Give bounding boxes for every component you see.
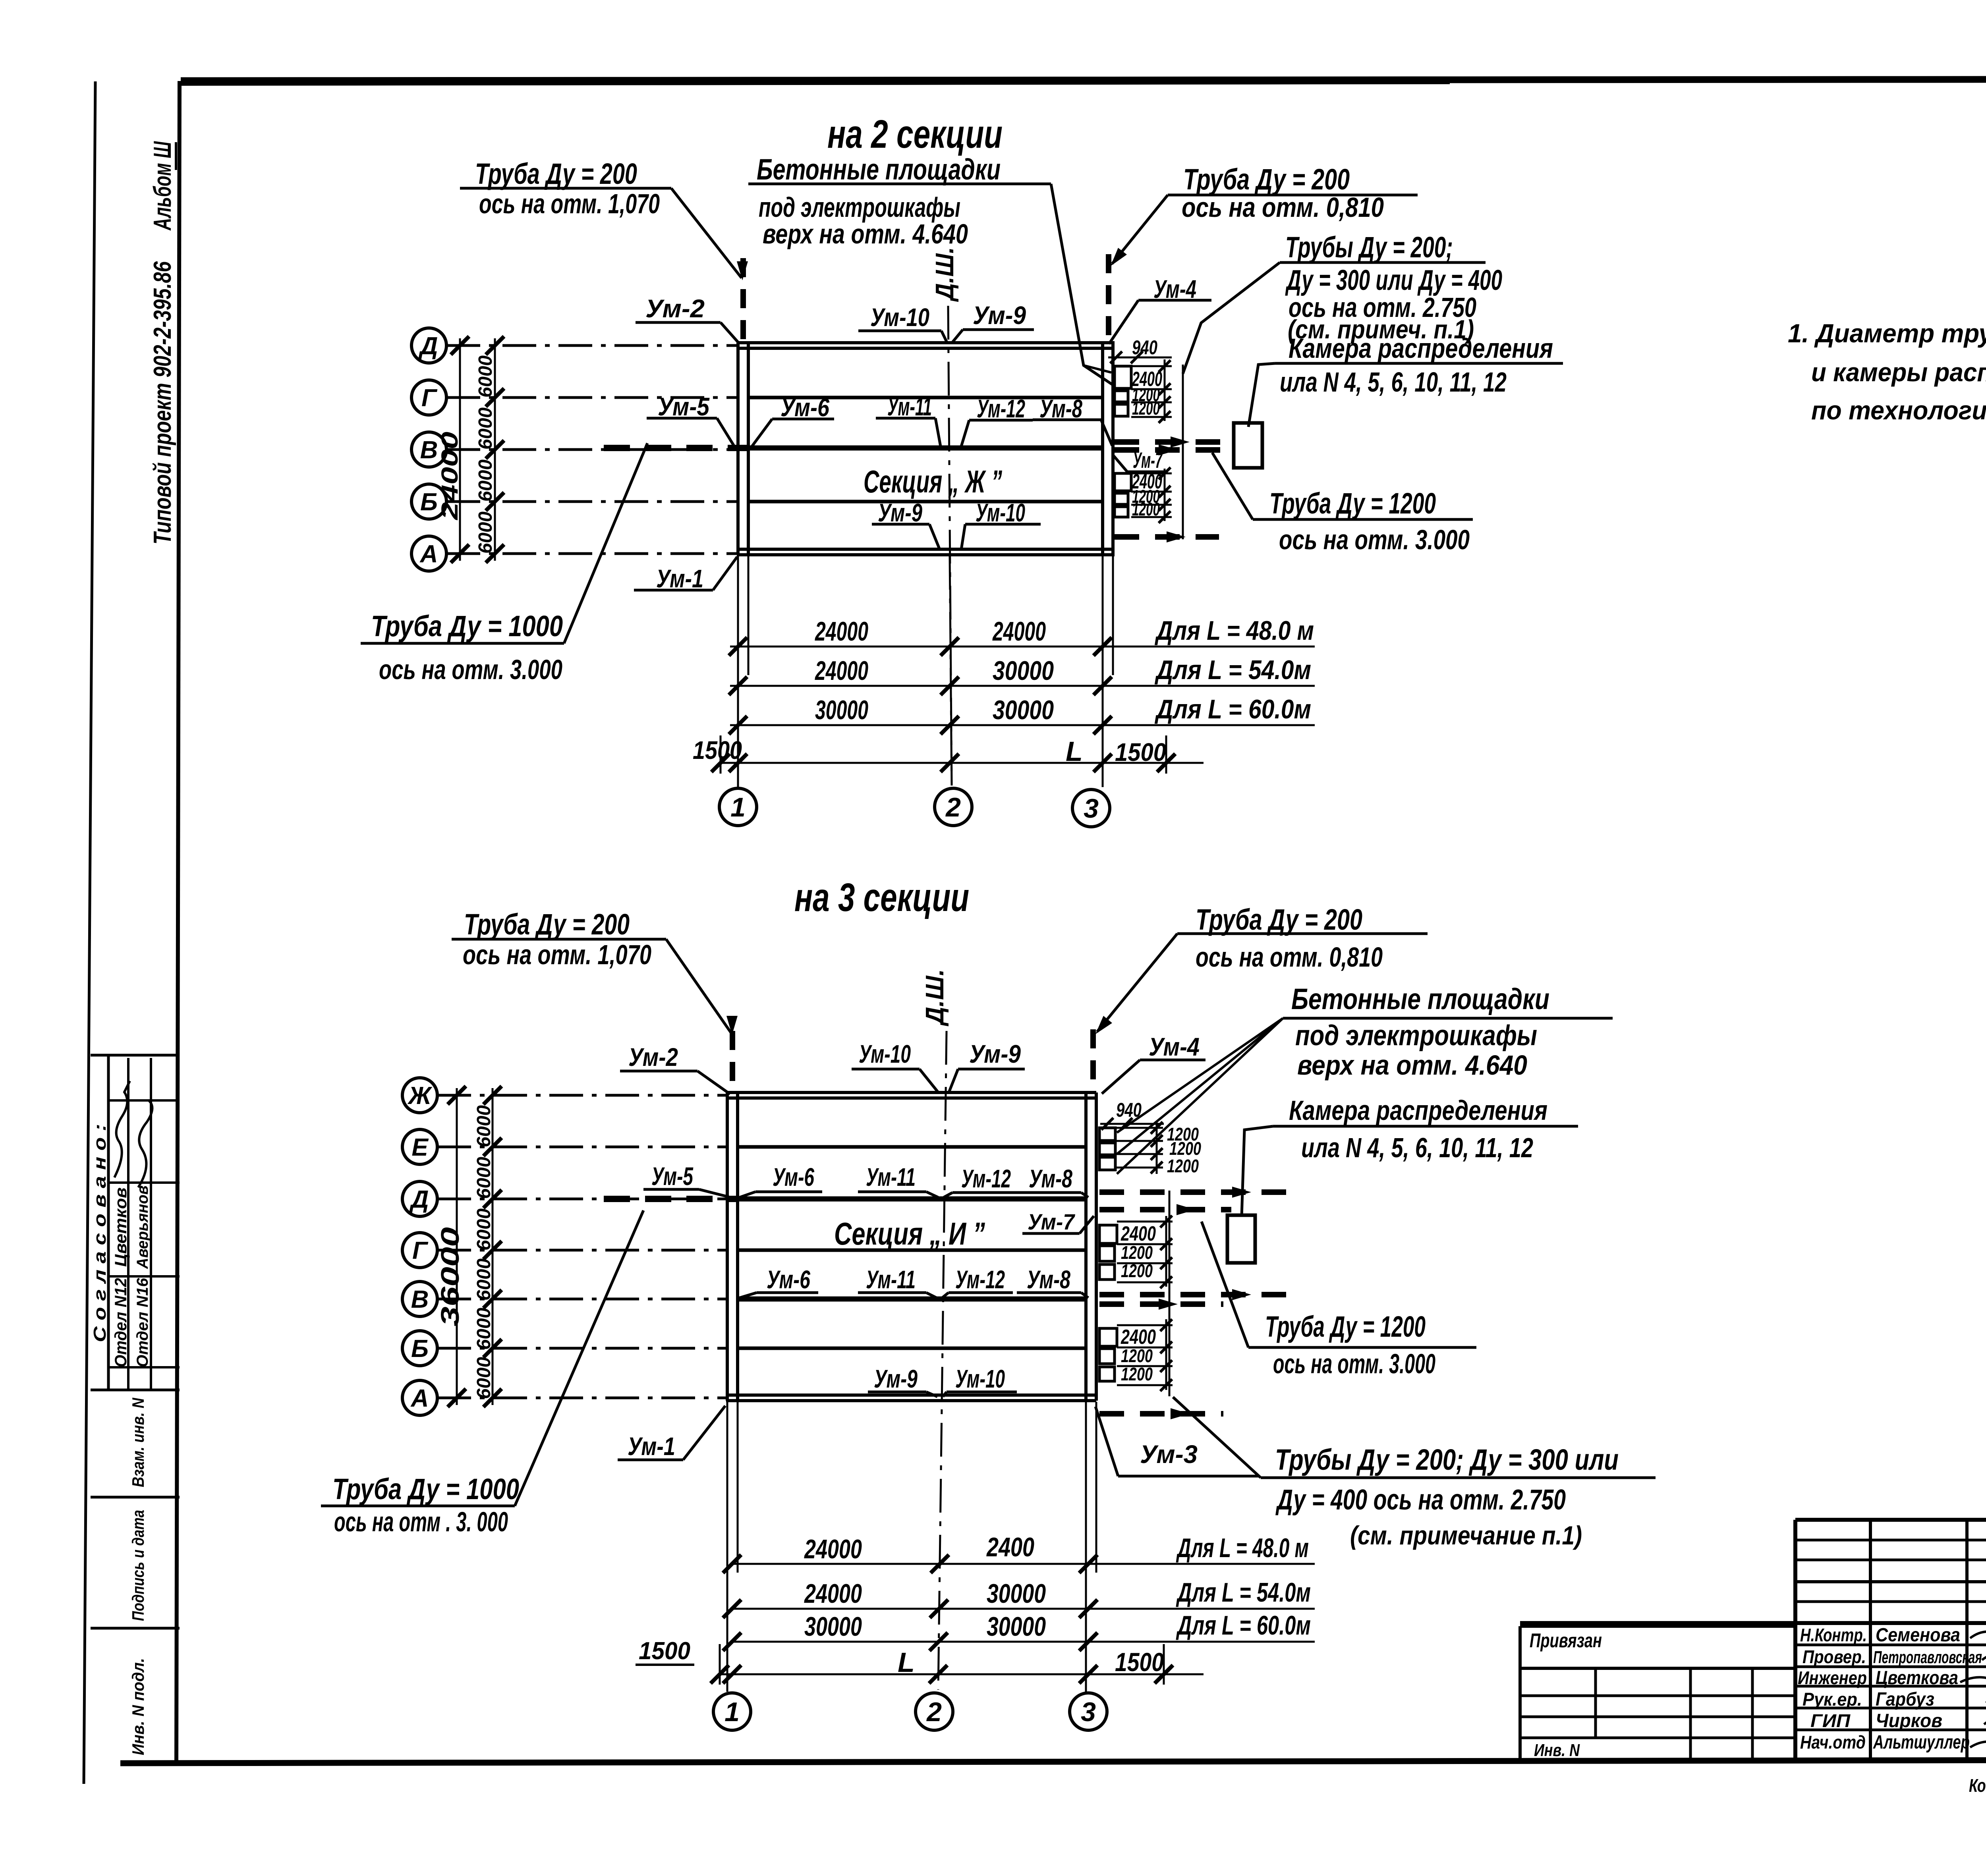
leader	[949, 1069, 958, 1093]
svg-text:Для L = 54.0м: Для L = 54.0м	[1155, 655, 1311, 685]
leader	[920, 1069, 939, 1093]
leader	[942, 1293, 949, 1298]
pipe Ду=1000 heavy dashes on row Д (left of tank)	[604, 1196, 738, 1202]
svg-text:Труба Ду = 200: Труба Ду = 200	[475, 157, 637, 190]
svg-text:Для L = 54.0м: Для L = 54.0м	[1176, 1577, 1311, 1608]
svg-text:Ум-10: Ум-10	[955, 1365, 1005, 1393]
column bubble 3 (bottom plan)	[1070, 1693, 1107, 1730]
svg-text:Ум-9: Ум-9	[874, 1365, 918, 1393]
leader	[926, 1293, 937, 1298]
svg-text:24000: 24000	[815, 616, 869, 647]
grid bubble А (bottom plan)	[402, 1380, 437, 1415]
svg-text:30000: 30000	[993, 656, 1054, 686]
svg-text:Ум-6: Ум-6	[767, 1265, 810, 1294]
grid axis line	[437, 1298, 726, 1301]
svg-text:Ум-1: Ум-1	[628, 1432, 675, 1461]
svg-text:на 2 секции: на 2 секции	[827, 112, 1003, 156]
svg-text:1. Диаметр труб подачи и: 1. Диаметр труб подачи ила Ду=200; 300 и…	[1788, 318, 1986, 348]
corridor divider row Е	[738, 1145, 1086, 1149]
svg-text:Ум-12: Ум-12	[955, 1265, 1005, 1294]
leader	[1081, 1293, 1088, 1298]
corridor divider row Б	[738, 1347, 1086, 1350]
svg-text:Цветков: Цветков	[111, 1187, 130, 1267]
svg-text:3: 3	[1084, 793, 1099, 824]
frame left border	[176, 81, 180, 1761]
dim line L=60 (bottom plan)	[730, 1641, 1315, 1643]
svg-text:Е: Е	[411, 1134, 429, 1161]
svg-text:В: В	[411, 1286, 429, 1313]
svg-text:Для L = 48.0 м: Для L = 48.0 м	[1176, 1533, 1309, 1563]
grid bubble В (bottom plan)	[402, 1282, 437, 1316]
leader	[1102, 1060, 1140, 1094]
svg-text:Д: Д	[409, 1186, 429, 1213]
leader	[944, 1193, 952, 1197]
svg-text:по технологическому зада: по технологическому заданию	[1811, 396, 1986, 425]
svg-text:ось на отм. 0,810: ось на отм. 0,810	[1182, 192, 1384, 223]
leader	[935, 418, 941, 446]
tank wall column 3 (top plan)	[1101, 343, 1104, 555]
svg-text:Отдел N12: Отдел N12	[111, 1278, 130, 1367]
svg-text:Камера распределения: Камера распределения	[1289, 1095, 1547, 1126]
extension verticals below tank (bottom plan)	[726, 1402, 728, 1692]
svg-text:ось на отм. 3.000: ось на отм. 3.000	[1279, 524, 1470, 555]
svg-text:6000: 6000	[473, 1308, 495, 1350]
pad dim ladder top group	[1131, 365, 1172, 367]
dim line L=54 (top plan)	[730, 685, 1315, 687]
dimension chain verticals (left, bottom plan)	[456, 1088, 458, 1405]
sidebar cell Подпись и дата	[91, 1627, 180, 1630]
svg-text:1200: 1200	[1132, 398, 1160, 419]
svg-text:Труба Ду = 200: Труба Ду = 200	[1183, 163, 1350, 196]
svg-text:Рук.ер.: Рук.ер.	[1802, 1689, 1862, 1710]
svg-text:1500: 1500	[1115, 1647, 1164, 1677]
leader	[740, 1293, 757, 1298]
leader	[1081, 1193, 1088, 1197]
leader to concrete pads	[1051, 184, 1112, 384]
svg-text:Для L = 60.0м: Для L = 60.0м	[1155, 694, 1311, 724]
svg-text:Для L = 48.0 м: Для L = 48.0 м	[1155, 616, 1314, 646]
leader	[515, 1210, 643, 1506]
svg-text:Секция „ И ”: Секция „ И ”	[834, 1216, 985, 1251]
tank outer wall row А (top plan)	[737, 548, 1115, 551]
svg-text:Ум-11: Ум-11	[866, 1265, 916, 1294]
svg-text:Бетонные площадки: Бетонные площадки	[1291, 982, 1549, 1015]
leader	[1183, 262, 1280, 374]
svg-text:24000: 24000	[804, 1579, 862, 1609]
column bubble 1 (bottom plan)	[713, 1693, 751, 1730]
svg-text:2400: 2400	[986, 1532, 1034, 1562]
grid axis line	[437, 1347, 726, 1350]
grid bubble А (top plan)	[411, 536, 446, 571]
grid axis line	[437, 1094, 726, 1097]
svg-text:ила N 4, 5, 6, 10, 11, 12: ила N 4, 5, 6, 10, 11, 12	[1301, 1132, 1533, 1163]
leader to chamber	[1248, 363, 1275, 427]
leader	[1097, 934, 1177, 1032]
svg-text:Ум-8: Ум-8	[1029, 1164, 1072, 1193]
svg-text:Ум-8: Ум-8	[1027, 1265, 1070, 1294]
svg-text:Ум-5: Ум-5	[651, 1162, 694, 1191]
leader to column-3 riser	[1112, 195, 1168, 264]
tank wall column 1 (top plan)	[736, 343, 740, 555]
svg-text:Взам. инв. N: Взам. инв. N	[129, 1397, 147, 1487]
grid axis line	[446, 448, 737, 451]
svg-text:1200: 1200	[1167, 1156, 1199, 1176]
pipe Ду=1200 dashed pair at row В (top plan)	[1115, 439, 1225, 445]
leader	[713, 557, 737, 590]
svg-text:Ду = 300 или Ду = 400: Ду = 300 или Ду = 400	[1285, 264, 1502, 296]
svg-text:Ум-7: Ум-7	[1133, 448, 1163, 473]
svg-text:ГИП: ГИП	[1810, 1710, 1851, 1731]
tank outer wall row Д (top plan)	[737, 341, 1115, 344]
svg-text:Ум-12: Ум-12	[977, 394, 1025, 423]
svg-text:Труба Ду = 1200: Труба Ду = 1200	[1265, 1310, 1426, 1343]
riser pipe Ду=200 at column 1 (top plan)	[740, 258, 746, 342]
leader	[1109, 300, 1138, 344]
riser pipe Ду=200 at column 3 (top plan)	[1106, 254, 1111, 342]
svg-text:940: 940	[1132, 336, 1157, 359]
svg-text:1200: 1200	[1132, 499, 1160, 519]
svg-text:24000: 24000	[804, 1534, 862, 1564]
svg-text:Копир. Лаврухина: Копир. Лаврухина	[1969, 1775, 1986, 1796]
svg-text:Ум-6: Ум-6	[780, 393, 829, 422]
dim line L (bottom plan)	[720, 1673, 1204, 1675]
svg-text:6000: 6000	[473, 1357, 495, 1399]
pipe dashed at row А (bottom plan)	[1099, 1411, 1223, 1417]
leader	[666, 939, 731, 1033]
leader	[1173, 1397, 1261, 1478]
svg-text:Отдел N16: Отдел N16	[134, 1278, 151, 1367]
svg-text:Ум-6: Ум-6	[773, 1163, 814, 1191]
pipe Ду=1000 heavy dashes on row В (left of tank)	[604, 445, 748, 451]
svg-text:Б: Б	[411, 1335, 429, 1363]
svg-text:Инв. N: Инв. N	[1534, 1741, 1580, 1760]
grid axis line	[446, 500, 737, 503]
svg-text:6000: 6000	[475, 459, 496, 502]
svg-text:1: 1	[730, 792, 746, 822]
leader	[961, 420, 969, 446]
svg-text:Ум-4: Ум-4	[1149, 1033, 1200, 1061]
pad ladder below В	[1117, 1324, 1173, 1326]
svg-text:Г: Г	[412, 1237, 429, 1264]
svg-text:Ум-3: Ум-3	[1140, 1440, 1198, 1469]
pipe dashed pair at row В (bottom plan)	[1099, 1292, 1287, 1297]
svg-text:Н.Контр.: Н.Контр.	[1800, 1625, 1867, 1645]
svg-text:2: 2	[926, 1697, 942, 1727]
grid axis line	[437, 1397, 726, 1399]
dim line L=48 (top plan)	[730, 646, 1315, 648]
svg-text:Ум-7: Ум-7	[1028, 1209, 1076, 1234]
svg-text:30000: 30000	[987, 1579, 1046, 1609]
svg-text:и камеры распределения и: и камеры распределения ила N 1÷12 опреде…	[1811, 357, 1986, 387]
svg-text:1500: 1500	[639, 1637, 690, 1665]
svg-text:Цветкова: Цветкова	[1876, 1668, 1958, 1689]
frame bottom border	[120, 1759, 1986, 1763]
svg-text:Г: Г	[421, 384, 438, 412]
leader	[1212, 453, 1253, 519]
svg-text:Бетонные площадки: Бетонные площадки	[757, 153, 1001, 186]
leader	[697, 1071, 730, 1094]
svg-text:Чирков: Чирков	[1876, 1710, 1942, 1731]
sheet outer left edge line	[84, 81, 95, 1784]
riser pipe Ду=200 at column 3 (bottom plan)	[1090, 1029, 1096, 1092]
grid bubble Г (bottom plan)	[402, 1233, 437, 1268]
svg-text:Трубы Ду = 200; Ду = 300 или: Трубы Ду = 200; Ду = 300 или	[1275, 1443, 1619, 1476]
column bubble 2 (top plan)	[935, 788, 972, 826]
leader	[717, 418, 735, 447]
extension verticals below tank (top plan)	[737, 556, 739, 787]
svg-text:1200: 1200	[1121, 1345, 1153, 1366]
svg-text:3: 3	[1081, 1697, 1096, 1727]
corridor divider row Г	[738, 1249, 1086, 1252]
svg-text:ось на отм . 3. 000: ось на отм . 3. 000	[334, 1506, 508, 1537]
svg-text:Петропавловская: Петропавловская	[1873, 1648, 1982, 1667]
grid bubble Б (top plan)	[411, 484, 446, 519]
svg-text:ила N 4, 5, 6, 10, 11, 12: ила N 4, 5, 6, 10, 11, 12	[1280, 367, 1507, 398]
svg-text:Альбом Ш: Альбом Ш	[149, 141, 176, 231]
extension vertical through pipes (top plan)	[1182, 365, 1184, 539]
column bubble 2 (bottom plan)	[916, 1693, 953, 1730]
svg-text:1200: 1200	[1121, 1260, 1153, 1281]
sidebar cell Взам.инв.N	[91, 1496, 180, 1499]
svg-text:Труба Ду = 1200: Труба Ду = 1200	[1269, 487, 1436, 520]
leader to column-1 riser	[671, 188, 742, 278]
svg-text:Семенова: Семенова	[1876, 1625, 1960, 1646]
svg-text:30000: 30000	[987, 1612, 1046, 1642]
svg-text:Ум-11: Ум-11	[887, 392, 932, 421]
svg-text:Ум-12: Ум-12	[961, 1164, 1011, 1193]
svg-text:А: А	[419, 540, 438, 568]
svg-text:Ум-11: Ум-11	[866, 1163, 916, 1191]
svg-text:Секция „ Ж ”: Секция „ Ж ”	[864, 464, 1002, 499]
tank wall column 3 (bottom plan)	[1084, 1092, 1088, 1401]
title block outer	[1795, 1518, 1986, 1522]
svg-text:Для L = 60.0м: Для L = 60.0м	[1176, 1610, 1311, 1641]
svg-text:Д: Д	[418, 332, 438, 360]
signature squiggles	[1970, 1629, 1986, 1640]
concrete pads below Д (bottom plan)	[1099, 1225, 1117, 1243]
svg-text:30000: 30000	[993, 695, 1054, 725]
svg-text:L: L	[898, 1647, 915, 1678]
leader	[926, 1192, 938, 1197]
pad ladder rows Ж-Е	[1115, 1127, 1163, 1129]
svg-text:L: L	[1066, 736, 1083, 767]
svg-text:Ду = 400 ось на отм. 2.750: Ду = 400 ось на отм. 2.750	[1275, 1484, 1566, 1516]
leader	[564, 443, 647, 643]
leader	[1101, 420, 1112, 446]
svg-text:Нач.отд: Нач.отд	[1800, 1732, 1866, 1752]
svg-text:Ум-2: Ум-2	[628, 1043, 678, 1071]
leader	[740, 1192, 755, 1197]
svg-text:ось на отм. 3.000: ось на отм. 3.000	[1273, 1348, 1435, 1379]
svg-text:Подпись и дата: Подпись и дата	[129, 1510, 147, 1621]
svg-text:С о г л а с о в а н о :: С о г л а с о в а н о :	[90, 1124, 110, 1342]
column bubble 3 (top plan)	[1072, 789, 1110, 827]
grid axis line	[446, 396, 737, 399]
dim line L=48 (bottom plan)	[730, 1563, 1315, 1565]
section wall row Д	[738, 1197, 1086, 1202]
svg-text:6000: 6000	[473, 1157, 495, 1199]
svg-text:30000: 30000	[815, 695, 868, 725]
leader	[929, 524, 940, 550]
riser pipe Ду=200 at column 1 (bottom plan)	[730, 1031, 735, 1092]
sidebar signature squiggles	[114, 1081, 130, 1177]
title block horizontals	[1795, 1539, 1986, 1542]
distribution chamber box (top plan)	[1234, 423, 1262, 468]
concrete pads rows Ж-Е (bottom plan)	[1099, 1128, 1115, 1141]
grid bubble Е (bottom plan)	[402, 1129, 437, 1164]
grid axis line	[437, 1198, 726, 1200]
dim line L=60 (top plan)	[730, 724, 1315, 726]
pipe dashed at row А extension (top plan)	[1115, 534, 1219, 540]
title block verticals	[1869, 1520, 1872, 1761]
svg-text:верх на отм. 4.640: верх на отм. 4.640	[763, 218, 968, 249]
svg-text:В: В	[420, 436, 438, 464]
leader	[926, 1392, 937, 1397]
svg-text:Провер.: Провер.	[1802, 1646, 1866, 1667]
grid bubble Д (bottom plan)	[402, 1181, 437, 1216]
grid axis line	[437, 1146, 726, 1148]
dim line L=54 (bottom plan)	[730, 1608, 1315, 1610]
svg-text:6000: 6000	[473, 1258, 495, 1301]
svg-text:Труба Ду = 1000: Труба Ду = 1000	[332, 1473, 519, 1505]
svg-text:Ум-5: Ум-5	[658, 392, 710, 421]
section wall row В	[738, 1297, 1086, 1302]
grid axis line	[446, 344, 737, 347]
svg-text:2: 2	[945, 792, 961, 822]
svg-text:Б: Б	[420, 488, 438, 516]
concrete pads column 3 (top plan)	[1115, 366, 1131, 388]
svg-text:24000: 24000	[815, 656, 869, 686]
tank wall column 1 (bottom plan)	[726, 1092, 729, 1401]
leader	[721, 322, 740, 344]
svg-text:Трубы Ду = 200;: Трубы Ду = 200;	[1285, 231, 1453, 264]
svg-text:Альтшуллер: Альтшуллер	[1873, 1732, 1970, 1753]
leader	[961, 524, 965, 550]
svg-text:под электрошкафы: под электрошкафы	[1295, 1020, 1537, 1052]
svg-text:1200: 1200	[1121, 1242, 1153, 1263]
corridor divider row Г	[748, 396, 1103, 400]
svg-text:Ум-9: Ум-9	[973, 301, 1026, 330]
svg-text:Инв. N подл.: Инв. N подл.	[129, 1658, 147, 1755]
svg-text:на 3 секции: на 3 секции	[794, 875, 969, 920]
svg-text:Ум-9: Ум-9	[878, 498, 922, 527]
grid axis line	[446, 552, 737, 555]
grid axis line	[437, 1249, 726, 1252]
grid bubble Ж (bottom plan)	[402, 1078, 437, 1113]
svg-text:6000: 6000	[475, 355, 496, 398]
svg-text:Ум-10: Ум-10	[976, 498, 1025, 527]
svg-text:Ж: Ж	[407, 1082, 433, 1110]
svg-text:ось на отм. 1,070: ось на отм. 1,070	[463, 939, 651, 970]
svg-text:6000: 6000	[475, 407, 496, 450]
leader	[752, 419, 772, 446]
svg-text:6000: 6000	[475, 511, 496, 554]
svg-text:верх на отм. 4.640: верх на отм. 4.640	[1297, 1050, 1527, 1081]
centerline Д.Ш. (top plan)	[948, 306, 952, 786]
svg-text:ось на отм. 0,810: ось на отм. 0,810	[1196, 942, 1383, 973]
svg-text:Ум-1: Ум-1	[656, 564, 703, 593]
svg-text:1200: 1200	[1121, 1364, 1153, 1384]
leaders to pads	[1117, 1018, 1283, 1133]
pad dim ladder group 2	[1131, 473, 1172, 475]
tank outer wall row А (bottom plan)	[726, 1393, 1096, 1397]
svg-text:Типовой проект 902-2-395.86: Типовой проект 902-2-395.86	[149, 261, 176, 544]
svg-text:Привязан: Привязан	[1530, 1629, 1602, 1652]
svg-text:ось на отм. 3.000: ось на отм. 3.000	[379, 654, 562, 685]
dim line L (top plan)	[721, 762, 1204, 764]
svg-text:Ум-2: Ум-2	[645, 294, 705, 323]
Привязан table	[1520, 1625, 1795, 1628]
frame top border	[181, 79, 1986, 81]
corridor divider row Б	[748, 500, 1103, 504]
svg-text:Ум-9: Ум-9	[969, 1040, 1021, 1068]
svg-text:Труба Ду = 200: Труба Ду = 200	[1196, 903, 1362, 936]
leader	[952, 330, 963, 343]
grid bubble Г (top plan)	[411, 380, 446, 415]
svg-text:6000: 6000	[473, 1208, 495, 1251]
svg-text:Гарбуз: Гарбуз	[1876, 1689, 1934, 1710]
sidebar table Согласовано	[91, 1054, 180, 1057]
leader	[943, 1392, 947, 1397]
svg-text:Инженер: Инженер	[1798, 1668, 1867, 1688]
section wall row В	[748, 446, 1103, 451]
svg-text:24000: 24000	[992, 616, 1046, 647]
grid bubble Б (bottom plan)	[402, 1331, 437, 1366]
tank outer wall row Ж (bottom plan)	[726, 1091, 1096, 1094]
concrete pads below В (bottom plan)	[1099, 1328, 1117, 1346]
svg-text:1500: 1500	[1115, 738, 1166, 766]
column bubble 1 (top plan)	[719, 788, 757, 826]
svg-text:30000: 30000	[804, 1612, 862, 1642]
concrete pads group 2 (top plan)	[1115, 473, 1131, 491]
leader	[941, 331, 947, 343]
svg-text:24000: 24000	[437, 432, 463, 520]
svg-text:36000: 36000	[436, 1227, 464, 1326]
svg-text:Ум-10: Ум-10	[859, 1040, 911, 1068]
dimension chain verticals (left, top plan)	[459, 338, 461, 561]
svg-text:Труба Ду = 1000: Труба Ду = 1000	[371, 610, 563, 643]
svg-text:Д.Ш.: Д.Ш.	[930, 247, 959, 302]
grid bubble В (top plan)	[411, 432, 446, 467]
svg-text:(см. примечание п.1): (см. примечание п.1)	[1350, 1521, 1582, 1550]
centerline Д.Ш. (bottom plan)	[938, 1031, 947, 1690]
leader	[699, 1189, 729, 1197]
svg-text:Аверьянов: Аверьянов	[134, 1185, 151, 1269]
svg-text:Камера распределения: Камера распределения	[1289, 333, 1553, 364]
svg-text:1500: 1500	[693, 736, 742, 764]
leader	[683, 1406, 725, 1460]
svg-text:Д.Ш.: Д.Ш.	[920, 969, 949, 1027]
leader	[1202, 1222, 1248, 1347]
pipe Ду=1200 dashed pair at row Д (bottom plan)	[1099, 1189, 1287, 1195]
pad ladder below Д	[1117, 1221, 1173, 1223]
svg-text:Ум-10: Ум-10	[870, 303, 929, 332]
grid bubble Д (top plan)	[411, 328, 446, 363]
leader to chamber	[1242, 1126, 1273, 1217]
svg-text:ось на отм. 1,070: ось на отм. 1,070	[479, 188, 660, 219]
svg-text:А: А	[410, 1385, 429, 1412]
svg-text:6000: 6000	[473, 1105, 495, 1147]
distribution chamber box (bottom plan)	[1227, 1215, 1255, 1263]
svg-text:940: 940	[1116, 1099, 1142, 1121]
svg-text:Труба Ду = 200: Труба Ду = 200	[464, 908, 630, 941]
svg-text:1: 1	[724, 1697, 740, 1727]
extension vertical through pipes (bottom plan)	[1169, 1191, 1171, 1396]
